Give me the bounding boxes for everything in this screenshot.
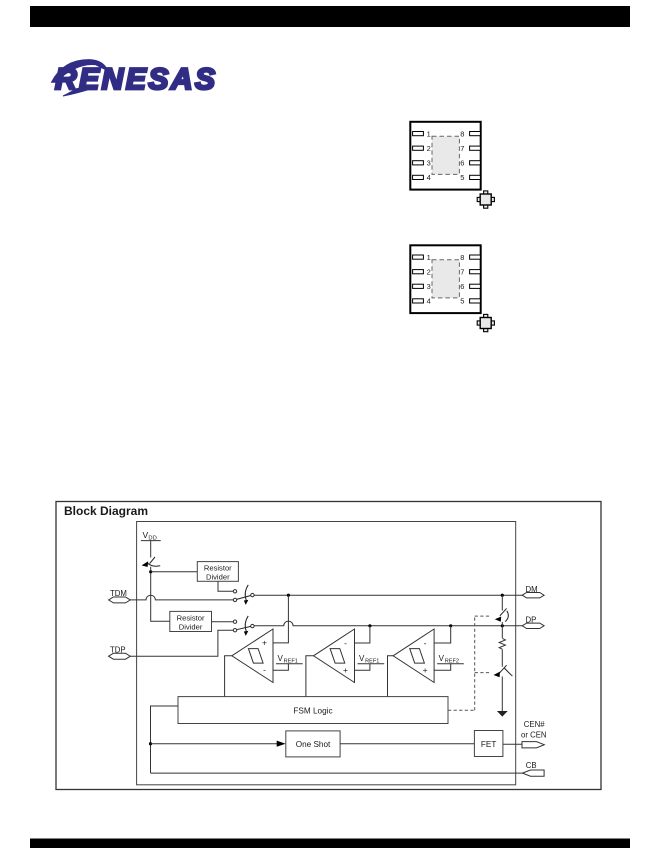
svg-text:REF2: REF2 xyxy=(445,658,459,664)
right column: DM to DP switch xyxy=(501,595,503,610)
package body xyxy=(410,122,480,190)
junction dot right column on DP bus xyxy=(501,624,504,627)
svg-text:CEN#: CEN# xyxy=(524,720,545,729)
TDM switch (contacts and arm) xyxy=(233,585,254,605)
pin 7 xyxy=(470,270,481,274)
svg-text:Divider: Divider xyxy=(206,572,230,581)
resistor divider box RD1 xyxy=(197,562,238,582)
wire FET to CEN port xyxy=(503,743,522,745)
svg-text:7: 7 xyxy=(460,268,464,277)
pin 8 xyxy=(470,255,481,259)
FET box xyxy=(474,731,503,757)
svg-text:2: 2 xyxy=(427,268,431,277)
svg-text:Resistor: Resistor xyxy=(204,563,232,572)
svg-text:4: 4 xyxy=(427,173,431,182)
junction dot right column on DM bus xyxy=(501,594,504,597)
pin 1 xyxy=(413,132,424,136)
svg-text:5: 5 xyxy=(460,173,464,182)
pin 1 xyxy=(413,255,424,259)
switch S2 (shunt) xyxy=(494,665,513,711)
svg-text:FET: FET xyxy=(481,740,496,749)
header black bar xyxy=(30,6,630,27)
svg-text:8: 8 xyxy=(460,253,464,262)
comparator U3 xyxy=(388,626,464,697)
center pad (dashed) xyxy=(432,260,459,298)
DP bus wire with hop over comp1 input xyxy=(254,621,522,626)
pin 4 xyxy=(413,175,424,179)
pin 6 xyxy=(470,161,481,165)
svg-text:FSM Logic: FSM Logic xyxy=(293,707,332,716)
svg-text:3: 3 xyxy=(427,282,431,291)
resistor divider box RD2 xyxy=(170,611,212,631)
svg-text:+: + xyxy=(423,665,428,675)
wire RD2 output xyxy=(212,621,234,623)
svg-text:V: V xyxy=(359,654,365,663)
svg-text:V: V xyxy=(439,654,445,663)
DM port oval xyxy=(522,593,544,598)
wire node to RD1 xyxy=(151,571,198,573)
pin 2 xyxy=(413,146,424,150)
svg-text:REF1: REF1 xyxy=(365,658,379,664)
pin 3 xyxy=(413,284,424,288)
svg-text:Resistor: Resistor xyxy=(177,613,205,622)
CB port arrow (input, points left) xyxy=(522,770,544,776)
figure frame xyxy=(56,502,601,790)
resistor R1 (zigzag) xyxy=(499,638,505,649)
svg-text:One Shot: One Shot xyxy=(296,740,331,749)
footer black bar xyxy=(30,839,630,849)
switch arrow at VDD xyxy=(142,557,161,567)
wire VDD down xyxy=(150,541,152,558)
package diagram 2 (DFN-8 top view) xyxy=(410,245,480,313)
pin 5 xyxy=(470,175,481,179)
TDM wire with hop over VDD line xyxy=(130,595,233,600)
FSM Logic box xyxy=(178,697,448,724)
CB wire across xyxy=(151,772,523,774)
svg-text:1: 1 xyxy=(427,129,431,138)
center pad (dashed) xyxy=(432,136,459,174)
TDP switch (contacts and arm) xyxy=(233,616,254,636)
svg-text:2: 2 xyxy=(427,144,431,153)
junction dot comp1 input on DM bus xyxy=(287,594,290,597)
wire DP to resistor xyxy=(501,626,503,638)
junction dot one shot branch xyxy=(149,742,152,745)
pin 4 xyxy=(413,299,424,303)
dashed control line FSM to switches xyxy=(448,616,491,710)
svg-text:1: 1 xyxy=(427,253,431,262)
svg-text:6: 6 xyxy=(460,282,464,291)
svg-text:-: - xyxy=(263,665,266,675)
wire RD1 output to switch contact xyxy=(218,581,233,591)
TDP port oval xyxy=(109,653,131,659)
pin 8 xyxy=(470,132,481,136)
svg-text:CB: CB xyxy=(526,761,537,770)
thermal pad icon 1 xyxy=(477,191,494,208)
pin 2 xyxy=(413,270,424,274)
svg-text:6: 6 xyxy=(460,159,464,168)
pin 7 xyxy=(470,146,481,150)
svg-text:4: 4 xyxy=(427,297,431,306)
junction node VDD/RD1 xyxy=(149,570,152,573)
wire VDD switch to RD2 corner xyxy=(151,567,170,621)
wire to One Shot with arrowhead xyxy=(151,743,278,745)
DM bus wire xyxy=(254,594,522,596)
wire One Shot to FET xyxy=(340,743,474,745)
package diagram 1 (DFN-8 top view) xyxy=(410,122,480,190)
comparator U2 xyxy=(306,626,384,697)
svg-text:REF1: REF1 xyxy=(284,658,298,664)
svg-text:-: - xyxy=(424,638,427,648)
svg-text:3: 3 xyxy=(427,159,431,168)
pin 6 xyxy=(470,284,481,288)
switch S1 (DM-DP) xyxy=(495,608,509,625)
ground arrow xyxy=(497,711,508,717)
svg-text:Divider: Divider xyxy=(179,622,203,631)
DP port oval xyxy=(522,623,544,628)
chip inner box xyxy=(137,522,516,785)
CEN port arrow (output) xyxy=(522,742,544,748)
svg-text:Block Diagram: Block Diagram xyxy=(64,504,148,518)
wire comp1 + input from DM bus xyxy=(273,595,288,643)
junction dot comp2 on DP bus xyxy=(368,624,371,627)
junction dot comp3 on DP bus xyxy=(449,624,452,627)
thermal pad icon 2 xyxy=(477,314,494,331)
pin 3 xyxy=(413,161,424,165)
package body xyxy=(410,245,480,313)
svg-text:+: + xyxy=(343,665,348,675)
svg-text:V: V xyxy=(278,654,284,663)
One Shot box xyxy=(286,731,340,757)
svg-text:5: 5 xyxy=(460,297,464,306)
wire resistor to switch S2 xyxy=(501,649,503,666)
TDM port oval xyxy=(109,597,131,603)
comparator U1 xyxy=(225,629,303,697)
svg-text:8: 8 xyxy=(460,129,464,138)
VDD label xyxy=(141,530,161,541)
TDP wire to switch xyxy=(130,630,233,656)
svg-text:+: + xyxy=(262,638,267,648)
left bus wire FSM / One Shot / CB xyxy=(151,706,179,773)
Renesas logo xyxy=(52,60,215,96)
pin 5 xyxy=(470,299,481,303)
svg-text:-: - xyxy=(344,638,347,648)
svg-text:7: 7 xyxy=(460,144,464,153)
svg-text:or CEN: or CEN xyxy=(521,731,547,740)
